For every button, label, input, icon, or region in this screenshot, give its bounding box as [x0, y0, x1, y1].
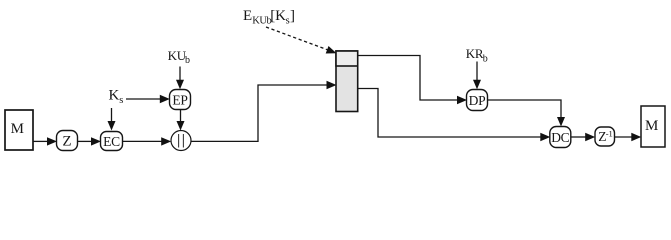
- svg-text:M: M: [645, 118, 658, 134]
- svg-text:Z: Z: [62, 134, 71, 150]
- svg-text:-1: -1: [606, 128, 613, 138]
- svg-text:KUb: KUb: [252, 15, 271, 26]
- svg-text:M: M: [11, 121, 24, 137]
- svg-text:EC: EC: [103, 134, 120, 149]
- svg-text:[K: [K: [270, 8, 286, 24]
- svg-text:s: s: [119, 95, 123, 106]
- svg-text:KU: KU: [168, 48, 187, 63]
- svg-text:EP: EP: [172, 92, 187, 107]
- svg-text:KR: KR: [466, 46, 484, 61]
- svg-text:E: E: [243, 8, 252, 24]
- svg-text:b: b: [185, 55, 190, 66]
- svg-text:DP: DP: [469, 93, 486, 108]
- svg-text:]: ]: [290, 8, 295, 24]
- svg-text:DC: DC: [551, 130, 569, 145]
- svg-text:K: K: [109, 87, 120, 103]
- svg-text:b: b: [483, 54, 488, 65]
